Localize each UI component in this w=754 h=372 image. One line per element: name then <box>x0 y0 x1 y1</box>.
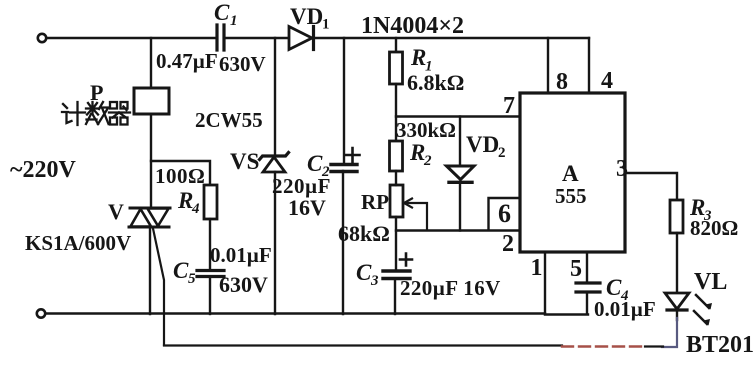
capacitor C4 <box>576 275 656 321</box>
zener VS <box>230 149 289 174</box>
wire drop to counter P <box>150 38 152 88</box>
capacitor C1 <box>156 0 266 76</box>
svg-text:220µF 16V: 220µF 16V <box>400 276 501 300</box>
wire lower return rail <box>164 346 663 347</box>
wire C5 to rail <box>209 277 211 314</box>
resistor R1 <box>390 45 465 95</box>
svg-text:R: R <box>410 45 426 70</box>
svg-text:1: 1 <box>230 13 238 29</box>
terminal bottom-left <box>37 309 45 317</box>
wire pin7 <box>396 93 520 119</box>
wire drop to R1 <box>395 38 397 52</box>
svg-text:630V: 630V <box>219 52 266 76</box>
svg-text:A: A <box>562 161 579 186</box>
label jishuqi (counter) <box>62 102 130 125</box>
svg-text:6.8kΩ: 6.8kΩ <box>407 70 464 95</box>
svg-text:~220V: ~220V <box>10 157 76 183</box>
wire C3 to rail <box>394 279 396 314</box>
svg-text:1: 1 <box>322 17 330 33</box>
svg-text:2: 2 <box>423 153 432 169</box>
svg-text:4: 4 <box>191 201 200 217</box>
svg-text:VS: VS <box>230 149 259 174</box>
svg-text:2: 2 <box>502 231 514 257</box>
wire R3 to VL <box>676 233 678 293</box>
svg-text:0.01µF: 0.01µF <box>210 243 272 267</box>
svg-text:VD: VD <box>290 4 323 29</box>
svg-text:2: 2 <box>498 145 506 161</box>
wire triac gate <box>153 229 164 346</box>
svg-text:5: 5 <box>570 256 582 282</box>
resistor R2 <box>390 140 433 171</box>
wire R1 to R2 <box>395 84 397 141</box>
svg-text:1N4004×2: 1N4004×2 <box>361 13 464 39</box>
svg-text:KS1A/600V: KS1A/600V <box>25 231 131 255</box>
svg-text:0.01µF: 0.01µF <box>594 297 656 321</box>
svg-text:8: 8 <box>556 69 568 95</box>
svg-text:3: 3 <box>370 273 379 289</box>
label ~220V <box>10 157 76 183</box>
capacitor C2 <box>272 148 360 220</box>
wire C4 to rail <box>586 292 588 314</box>
svg-text:5: 5 <box>188 271 196 287</box>
wire drop to C2 <box>343 38 345 164</box>
svg-text:0.47µF: 0.47µF <box>156 49 218 73</box>
svg-text:555: 555 <box>555 184 587 208</box>
wire C2 to rail <box>342 171 344 314</box>
wiper arrow RP <box>404 199 427 231</box>
svg-text:V: V <box>108 199 124 224</box>
svg-text:68kΩ: 68kΩ <box>338 221 390 246</box>
capacitor C3 <box>356 254 501 301</box>
potentiometer RP <box>338 185 403 246</box>
wire VL down <box>676 309 678 320</box>
svg-text:820Ω: 820Ω <box>690 216 738 240</box>
svg-text:16V: 16V <box>288 195 326 220</box>
svg-text:R: R <box>177 188 193 213</box>
svg-text:100Ω: 100Ω <box>155 164 205 188</box>
label 330kohm <box>396 118 456 142</box>
wire top rail left segment <box>47 37 216 39</box>
svg-text:2CW55: 2CW55 <box>195 108 263 132</box>
counter box P <box>90 80 169 114</box>
wire node 6-2 to 555 <box>396 229 520 231</box>
wire VS to rail <box>274 172 276 314</box>
wire pin3 <box>616 156 677 200</box>
triac V <box>25 199 170 255</box>
svg-text:C: C <box>214 0 230 25</box>
wire VL lead bottom (blue scan) <box>662 318 677 347</box>
wire R4 to C5 <box>209 219 211 270</box>
wire P to triac <box>150 114 152 208</box>
svg-text:C: C <box>173 258 189 283</box>
terminal top-left <box>38 34 46 42</box>
wire bottom rail <box>46 314 589 315</box>
wire pin5 to C4 <box>570 252 587 283</box>
wire pin8 drop <box>548 38 568 95</box>
wire C1 to VD1 <box>226 37 289 39</box>
svg-text:6: 6 <box>498 199 511 228</box>
svg-text:R: R <box>409 140 425 165</box>
wire drop to VS <box>274 38 276 156</box>
svg-text:BT201: BT201 <box>686 332 754 358</box>
wire VD1 to pin4 drop <box>313 37 589 39</box>
wire pin1 drop <box>531 252 546 314</box>
diode VD2 <box>447 117 506 231</box>
wire branch to R4 <box>151 161 210 185</box>
svg-text:C: C <box>307 151 323 176</box>
LED VL <box>665 269 727 326</box>
label 1N4004x2 <box>361 13 464 39</box>
resistor R3 <box>670 195 738 240</box>
svg-text:C: C <box>356 260 372 285</box>
svg-text:VD: VD <box>466 132 499 157</box>
label 2CW55 <box>195 108 263 132</box>
svg-text:RP: RP <box>361 190 389 214</box>
svg-text:330kΩ: 330kΩ <box>396 118 456 142</box>
capacitor C5 <box>173 243 272 297</box>
diode VD1 <box>289 4 330 50</box>
wire pin4 drop <box>589 38 613 94</box>
wire triac to rail <box>149 228 151 314</box>
svg-text:1: 1 <box>531 255 543 281</box>
svg-text:630V: 630V <box>219 272 268 297</box>
resistor R4 <box>177 185 217 219</box>
svg-text:3: 3 <box>616 156 628 182</box>
svg-text:VL: VL <box>694 269 727 295</box>
label BT201 <box>686 332 754 358</box>
pin6 stub box <box>489 198 521 257</box>
svg-text:7: 7 <box>503 93 515 119</box>
label 100ohm <box>155 164 205 188</box>
svg-text:4: 4 <box>601 68 613 94</box>
timer IC A 555 <box>520 93 625 252</box>
wire R2 to RP to C3 <box>395 171 397 271</box>
